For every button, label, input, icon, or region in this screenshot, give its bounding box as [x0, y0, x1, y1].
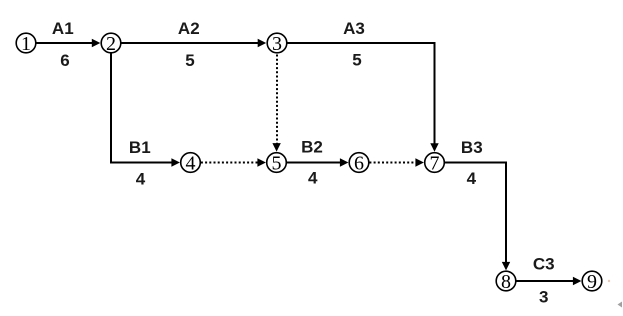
svg-text:B3: B3 — [461, 138, 483, 157]
wire B3 elbow from node 7 right then down to node 8 — [445, 163, 510, 271]
faint dot artifact right of node 9 — [608, 280, 610, 282]
svg-text:7: 7 — [430, 152, 440, 174]
svg-text:5: 5 — [272, 152, 282, 174]
svg-text:B1: B1 — [129, 138, 151, 157]
svg-text:5: 5 — [352, 51, 361, 70]
wire C3 arrow from node 8 to node 9 — [516, 277, 581, 285]
svg-text:4: 4 — [186, 152, 196, 174]
svg-text:1: 1 — [21, 33, 31, 55]
svg-text:6: 6 — [60, 51, 69, 70]
svg-text:C3: C3 — [533, 255, 555, 274]
node 5 — [267, 152, 287, 174]
wire B1 elbow from node 2 down then right to node 4 — [111, 53, 180, 166]
svg-text:A3: A3 — [343, 19, 365, 38]
dummy dotted arrow from node 3 down to node 5 — [272, 55, 280, 152]
svg-text:A1: A1 — [52, 19, 74, 38]
dummy dotted arrow from node 6 to node 7 — [369, 158, 424, 166]
node 3 — [267, 33, 287, 55]
small gray cursor artifact bottom right — [618, 302, 623, 308]
svg-text:8: 8 — [501, 271, 511, 293]
wire A2 arrow from node 2 to node 3 — [121, 39, 266, 47]
svg-text:2: 2 — [106, 33, 116, 55]
svg-text:A2: A2 — [178, 19, 200, 38]
node 9 — [582, 271, 602, 293]
node 7 — [425, 152, 445, 174]
node 1 — [16, 33, 36, 55]
node 2 — [101, 33, 121, 55]
node 6 — [349, 152, 369, 174]
svg-text:3: 3 — [539, 287, 548, 306]
svg-text:4: 4 — [308, 169, 318, 188]
node 4 — [181, 152, 201, 174]
wire A1 arrow from node 1 to node 2 — [36, 39, 100, 47]
wire B2 arrow from node 5 to node 6 — [287, 158, 348, 166]
svg-text:B2: B2 — [301, 138, 323, 157]
svg-text:3: 3 — [272, 33, 282, 55]
svg-text:5: 5 — [185, 51, 194, 70]
svg-text:9: 9 — [587, 271, 597, 293]
svg-text:6: 6 — [354, 152, 364, 174]
node 8 — [496, 271, 516, 293]
dummy dotted arrow from node 4 to node 5 — [201, 158, 266, 166]
svg-text:4: 4 — [467, 169, 477, 188]
wire A3 elbow from node 3 right then down to node 7 — [287, 43, 438, 152]
svg-text:4: 4 — [136, 169, 146, 188]
